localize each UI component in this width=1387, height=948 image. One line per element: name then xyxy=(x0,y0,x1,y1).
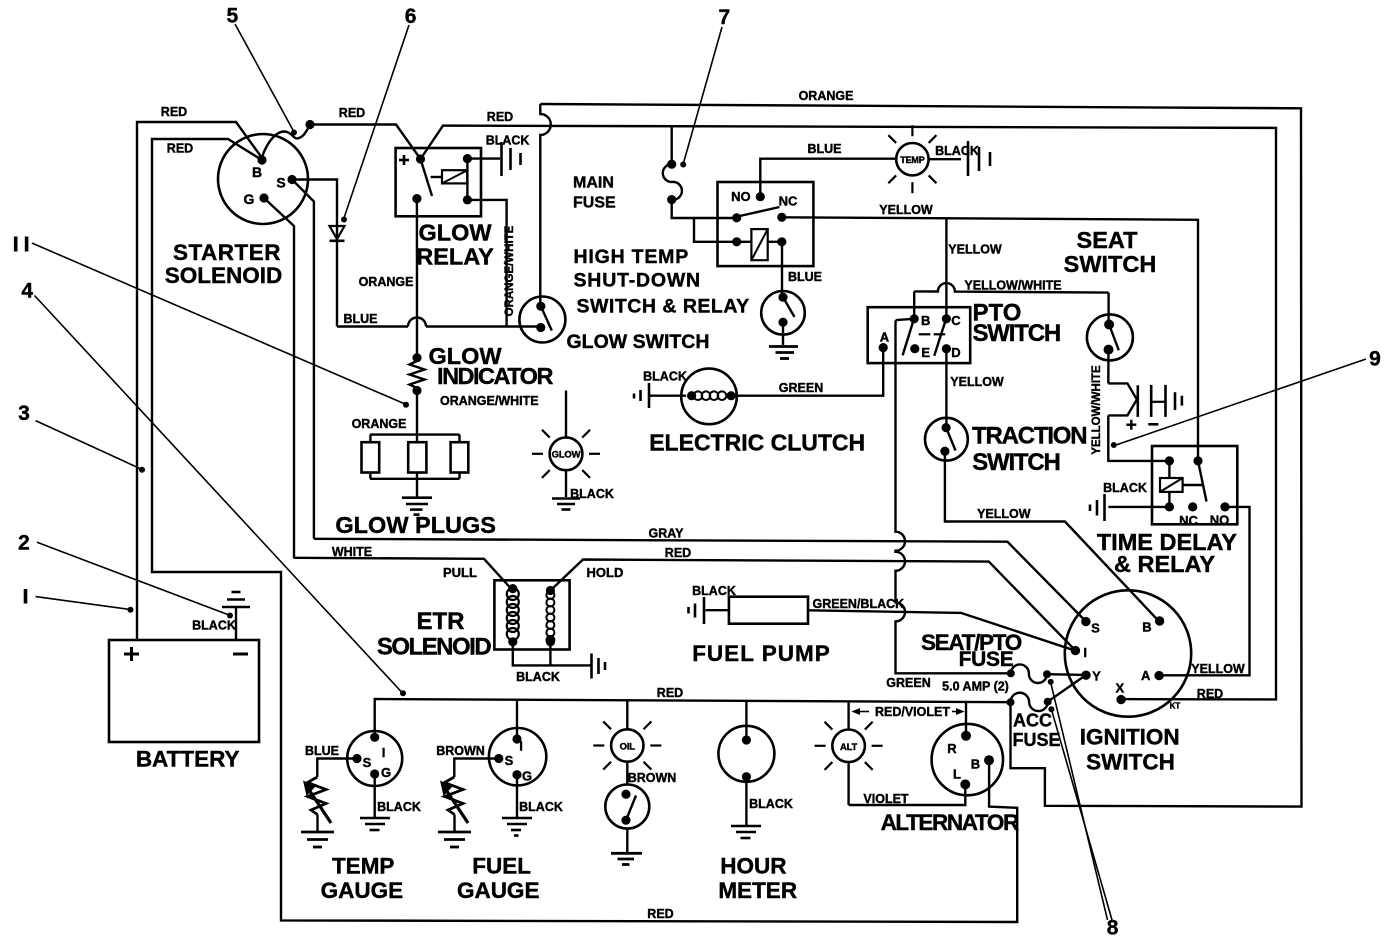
svg-text:SOLENOID: SOLENOID xyxy=(377,634,492,661)
glow relay xyxy=(396,148,494,270)
svg-text:ALT: ALT xyxy=(840,742,858,753)
svg-text:SWITCH: SWITCH xyxy=(1086,750,1175,775)
svg-text:Y: Y xyxy=(1092,668,1101,683)
callout 8 fuses xyxy=(1048,679,1119,940)
svg-text:ORANGE: ORANGE xyxy=(359,275,414,289)
ground oil switch xyxy=(611,829,642,865)
svg-text:FUSE: FUSE xyxy=(959,648,1014,671)
wire main fuse to high-temp relay xyxy=(672,200,737,242)
svg-text:I: I xyxy=(382,745,386,760)
svg-text:INDICATOR: INDICATOR xyxy=(437,363,553,389)
wire VIOLET alt lamp to alternator L xyxy=(849,784,966,806)
svg-text:GLOW: GLOW xyxy=(418,220,492,246)
svg-text:GAUGE: GAUGE xyxy=(321,878,404,903)
svg-text:YELLOW/WHITE: YELLOW/WHITE xyxy=(1091,365,1103,455)
ground glow relay coil (BLACK) xyxy=(467,134,529,177)
svg-text:ORANGE: ORANGE xyxy=(352,417,407,431)
wire YELLOW/WHITE PTO B to seat switch (hops C wire) xyxy=(914,279,1108,325)
svg-text:BLACK: BLACK xyxy=(1103,481,1147,495)
svg-text:NO: NO xyxy=(731,189,751,204)
fuel gauge xyxy=(457,728,546,903)
svg-text:& RELAY: & RELAY xyxy=(1114,551,1215,577)
wire YELLOW PTO C up to yellow bus xyxy=(946,217,1002,318)
shutdown switch xyxy=(761,291,805,335)
svg-text:MAIN: MAIN xyxy=(573,174,614,191)
PTO switch xyxy=(868,300,1060,364)
svg-text:RELAY: RELAY xyxy=(416,244,494,270)
wire WHITE starter G to ETR pull xyxy=(264,198,511,589)
wire YELLOW time delay NO to ignition A xyxy=(1158,507,1250,676)
svg-text:3: 3 xyxy=(18,402,30,425)
svg-text:RED: RED xyxy=(167,142,193,156)
wire RED/VIOLET label with arrows xyxy=(852,705,965,719)
svg-text:RED: RED xyxy=(647,907,673,921)
glow plugs xyxy=(335,391,496,539)
svg-text:I: I xyxy=(1083,645,1087,660)
callout 4 gauge feed xyxy=(21,280,406,697)
callout 7 main fuse xyxy=(680,6,730,168)
electric clutch xyxy=(649,369,865,456)
high temp shut-down relay xyxy=(574,182,814,318)
svg-text:ELECTRIC CLUTCH: ELECTRIC CLUTCH xyxy=(649,430,865,456)
callout 1 battery positive xyxy=(26,589,134,613)
svg-text:A: A xyxy=(1141,668,1151,683)
svg-text:RED: RED xyxy=(657,686,683,700)
svg-text:BLUE: BLUE xyxy=(343,312,377,326)
svg-text:RED: RED xyxy=(665,546,691,560)
svg-text:BATTERY: BATTERY xyxy=(136,747,240,772)
svg-text:SEAT: SEAT xyxy=(1077,227,1139,253)
ground temp gauge (BLACK) xyxy=(360,774,421,830)
wire ORANGE top bus to right border and around bottom to ACC fuse xyxy=(540,89,1301,807)
fuel sender (BROWN) xyxy=(436,744,499,847)
svg-text:BLACK: BLACK xyxy=(192,619,236,633)
svg-text:R: R xyxy=(947,741,957,756)
wire RED battery feed outer-left border (battery + to starter B) xyxy=(137,105,262,640)
svg-text:YELLOW: YELLOW xyxy=(879,203,933,217)
svg-text:B: B xyxy=(252,164,262,180)
svg-text:FUSE: FUSE xyxy=(573,195,616,212)
svg-text:FUSE: FUSE xyxy=(1013,730,1061,750)
wire RED gauge feed bus xyxy=(375,686,1011,737)
main fuse xyxy=(573,126,682,212)
svg-text:GLOW: GLOW xyxy=(552,450,581,461)
svg-text:4: 4 xyxy=(21,280,33,303)
svg-text:E: E xyxy=(921,345,930,360)
svg-text:HOUR: HOUR xyxy=(720,854,786,879)
wire RED ETR hold to ignition I xyxy=(550,546,1075,651)
svg-text:BLUE: BLUE xyxy=(788,270,822,284)
callout 9 seat wire xyxy=(1111,348,1381,449)
wire glow relay lower-right to BLUE line xyxy=(467,200,515,327)
svg-text:FUEL PUMP: FUEL PUMP xyxy=(692,641,831,666)
svg-text:BLACK: BLACK xyxy=(935,144,979,158)
battery xyxy=(109,640,259,772)
traction switch xyxy=(925,418,1086,476)
svg-text:GRAY: GRAY xyxy=(649,527,685,541)
svg-text:YELLOW: YELLOW xyxy=(950,375,1004,389)
svg-text:S: S xyxy=(1091,620,1100,635)
svg-text:G: G xyxy=(522,769,532,784)
glow switch xyxy=(519,297,709,354)
svg-text:SWITCH: SWITCH xyxy=(972,449,1059,476)
svg-text:I: I xyxy=(519,739,523,754)
callout 3 charge wire xyxy=(18,402,145,473)
svg-text:METER: METER xyxy=(718,878,797,903)
callout 6 diode xyxy=(341,5,416,222)
svg-text:BLUE: BLUE xyxy=(305,744,339,758)
svg-text:RED/VIOLET: RED/VIOLET xyxy=(875,705,950,719)
callout 2 battery ground xyxy=(18,532,233,619)
svg-text:GLOW PLUGS: GLOW PLUGS xyxy=(335,512,496,538)
svg-text:NC: NC xyxy=(1179,513,1198,528)
svg-text:STARTER: STARTER xyxy=(173,240,281,265)
wire RED top bus from starter junction to right border down to ignition X xyxy=(310,106,1276,701)
wire RED second loop (starter B / charge path to bottom bus) xyxy=(152,139,1017,922)
ground electric clutch (BLACK) xyxy=(634,370,687,409)
time delay relay xyxy=(1097,446,1237,577)
svg-text:NO: NO xyxy=(1210,513,1230,528)
svg-text:RED: RED xyxy=(1197,687,1223,701)
starter solenoid xyxy=(165,134,308,288)
svg-text:GLOW SWITCH: GLOW SWITCH xyxy=(567,331,710,353)
svg-text:SHUT-DOWN: SHUT-DOWN xyxy=(574,270,701,292)
svg-text:B: B xyxy=(971,757,980,772)
wire RED bottom bus label xyxy=(647,907,673,921)
svg-text:B: B xyxy=(921,313,930,328)
ignition switch xyxy=(1065,590,1191,774)
connector battery-style symbol on seat wire xyxy=(1126,385,1182,430)
alternator xyxy=(881,724,1019,835)
svg-text:ALTERNATOR: ALTERNATOR xyxy=(881,810,1019,835)
wire BLUE from starter S through diode to glow switch xyxy=(292,180,541,327)
svg-text:2: 2 xyxy=(18,532,30,555)
wire curve from starter B to junction (item 5) xyxy=(262,126,310,157)
svg-text:G: G xyxy=(381,765,391,780)
wire YELLOW traction switch to ignition B xyxy=(945,451,1159,621)
svg-text:5.0 AMP (2): 5.0 AMP (2) xyxy=(942,680,1009,694)
svg-text:L: L xyxy=(953,767,961,782)
temp gauge xyxy=(321,731,404,903)
svg-text:YELLOW: YELLOW xyxy=(948,243,1002,257)
svg-text:YELLOW: YELLOW xyxy=(1191,662,1245,676)
svg-text:BLACK: BLACK xyxy=(516,670,560,684)
ground glow lamp xyxy=(552,499,580,510)
wire YELLOW PTO D to traction switch xyxy=(946,349,1004,428)
ground hour meter (BLACK) xyxy=(731,777,793,838)
svg-text:WHITE: WHITE xyxy=(332,545,372,559)
svg-text:9: 9 xyxy=(1369,348,1381,371)
svg-text:BLACK: BLACK xyxy=(692,584,736,598)
fuel pump xyxy=(692,597,831,666)
ground battery negative (BLACK) xyxy=(192,592,250,640)
svg-text:PULL: PULL xyxy=(443,565,477,580)
svg-text:5: 5 xyxy=(227,4,239,27)
svg-text:KT: KT xyxy=(1170,702,1181,711)
wire BLUE high-temp relay NO to temp lamp xyxy=(760,142,896,197)
wire GRAY starter S to ignition S xyxy=(292,180,1086,622)
svg-text:RED: RED xyxy=(161,105,187,119)
glow indicator resistor (item 11) xyxy=(410,199,554,408)
svg-text:6: 6 xyxy=(405,5,417,28)
ground glow plugs xyxy=(402,479,432,515)
svg-text:S: S xyxy=(505,753,514,768)
wire RED fuel gauge feed xyxy=(516,700,518,739)
svg-text:C: C xyxy=(951,313,961,328)
svg-text:ACC: ACC xyxy=(1013,711,1052,731)
ground ETR solenoid (BLACK) xyxy=(513,642,605,684)
svg-text:GAUGE: GAUGE xyxy=(457,878,540,903)
svg-text:SWITCH: SWITCH xyxy=(1064,251,1157,277)
svg-text:D: D xyxy=(951,345,960,360)
svg-text:S: S xyxy=(363,755,372,770)
svg-text:BLACK: BLACK xyxy=(749,797,793,811)
svg-text:HOLD: HOLD xyxy=(587,565,624,580)
svg-text:BROWN: BROWN xyxy=(628,771,677,785)
svg-text:YELLOW: YELLOW xyxy=(977,507,1031,521)
alt lamp xyxy=(815,701,883,805)
svg-text:GREEN: GREEN xyxy=(886,676,930,690)
svg-text:YELLOW/WHITE: YELLOW/WHITE xyxy=(964,279,1061,293)
ground fuel gauge (BLACK) xyxy=(502,775,563,836)
svg-text:TRACTION: TRACTION xyxy=(972,423,1086,450)
callout 5 starter B wire xyxy=(227,4,297,135)
svg-text:FUEL: FUEL xyxy=(472,854,531,879)
svg-text:BLUE: BLUE xyxy=(807,142,841,156)
wire GREEN/BLACK fuel pump to ignition I xyxy=(808,597,1076,651)
svg-text:BLACK: BLACK xyxy=(519,800,563,814)
seat switch xyxy=(1064,227,1157,360)
svg-text:VIOLET: VIOLET xyxy=(863,792,909,806)
svg-text:RED: RED xyxy=(339,106,365,120)
wire GREEN electric clutch to PTO A xyxy=(731,348,883,396)
svg-text:IGNITION: IGNITION xyxy=(1080,725,1180,750)
temp sender (BLUE) xyxy=(301,744,357,847)
wire RED alternator R feed xyxy=(965,702,967,736)
svg-text:SWITCH & RELAY: SWITCH & RELAY xyxy=(577,296,750,318)
callout 11 glow indicator xyxy=(16,237,409,408)
svg-text:ORANGE/WHITE: ORANGE/WHITE xyxy=(504,225,516,316)
wire BLUE high-temp relay coil to shutdown switch xyxy=(782,242,822,297)
svg-text:GREEN: GREEN xyxy=(779,381,823,395)
svg-text:SWITCH: SWITCH xyxy=(973,320,1060,347)
ground time delay (BLACK) xyxy=(1090,481,1169,521)
svg-text:B: B xyxy=(1142,620,1151,635)
wire YELLOW high-temp NC to time delay xyxy=(782,203,1198,461)
glow lamp xyxy=(532,391,614,502)
oil lamp xyxy=(593,701,676,786)
svg-text:BROWN: BROWN xyxy=(436,744,485,758)
svg-text:HIGH TEMP: HIGH TEMP xyxy=(574,246,690,268)
svg-text:ORANGE: ORANGE xyxy=(799,89,854,103)
svg-text:7: 7 xyxy=(719,6,731,29)
hour meter xyxy=(718,701,797,903)
ground fuel pump (BLACK) xyxy=(689,584,736,624)
acc fuse xyxy=(1007,675,1087,750)
wire YELLOW/WHITE seat switch to time delay relay (item 9) xyxy=(1091,350,1169,461)
svg-text:ORANGE/WHITE: ORANGE/WHITE xyxy=(440,394,539,408)
svg-text:G: G xyxy=(244,191,255,207)
svg-text:GREEN/BLACK: GREEN/BLACK xyxy=(813,597,905,611)
ground temp lamp xyxy=(968,141,990,176)
svg-text:BLACK: BLACK xyxy=(486,134,530,148)
ETR solenoid xyxy=(377,565,624,661)
diode D1 (item 6) xyxy=(330,226,345,241)
seat/pto fuse xyxy=(921,630,1086,683)
temp lamp xyxy=(888,125,979,193)
wire GREEN PTO B to seat/pto fuse (hops gray red green/black) xyxy=(886,319,1011,694)
svg-text:NC: NC xyxy=(779,194,798,209)
svg-text:BLACK: BLACK xyxy=(643,370,687,384)
svg-text:8: 8 xyxy=(1107,917,1119,940)
svg-text:SOLENOID: SOLENOID xyxy=(165,263,283,288)
svg-text:RED: RED xyxy=(487,110,513,124)
svg-text:S: S xyxy=(276,175,285,191)
svg-text:A: A xyxy=(880,330,890,345)
svg-text:ETR: ETR xyxy=(417,608,465,635)
wire ORANGE drop to glow switch (hops RED bus) xyxy=(540,104,551,306)
svg-text:TEMP: TEMP xyxy=(900,155,924,165)
node junction starter-B curve to RED bus xyxy=(305,120,314,129)
oil pressure switch xyxy=(605,785,649,829)
svg-text:BLACK: BLACK xyxy=(377,800,421,814)
ground shutdown switch xyxy=(769,322,798,358)
svg-text:OIL: OIL xyxy=(620,742,636,753)
svg-text:X: X xyxy=(1115,680,1124,695)
svg-text:TEMP: TEMP xyxy=(332,854,395,879)
